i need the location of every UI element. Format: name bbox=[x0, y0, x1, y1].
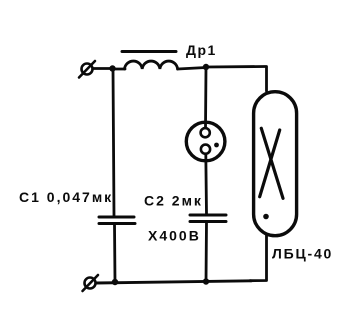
bottom wire bbox=[96, 281, 251, 283]
lamp tube LBC-40 bbox=[254, 92, 297, 236]
starter lamp (glow starter) bbox=[186, 122, 225, 161]
capacitor C2 bbox=[190, 215, 226, 222]
capacitor C1 bbox=[99, 217, 135, 224]
wire lamp bottom to corner bbox=[250, 236, 267, 281]
terminal bottom-left bbox=[83, 275, 99, 291]
wire starter branch upper bbox=[204, 67, 207, 128]
lamp X electrode mark bbox=[260, 128, 283, 198]
node A bbox=[109, 65, 115, 71]
lamp dot bbox=[263, 214, 269, 220]
svg-text:ЛБЦ-40: ЛБЦ-40 bbox=[272, 246, 333, 262]
svg-text:Др1: Др1 bbox=[186, 42, 217, 58]
node B bbox=[203, 64, 209, 70]
wire starter to C2 bbox=[204, 154, 207, 214]
wire node A to inductor bbox=[113, 68, 126, 71]
terminal top-left bbox=[79, 61, 95, 78]
svg-text:Х400В: Х400В bbox=[148, 228, 201, 244]
wire terminal to node A bbox=[93, 67, 112, 70]
wire vertical C1 branch upper bbox=[113, 69, 114, 217]
svg-text:C2 2мк: C2 2мк bbox=[144, 193, 203, 209]
node C bbox=[112, 279, 118, 285]
inductor Dr1 coil bbox=[125, 61, 178, 69]
wire C1 to bottom wire bbox=[113, 224, 116, 282]
svg-text:C1 0,047мк: C1 0,047мк bbox=[19, 189, 113, 205]
node D bbox=[203, 278, 209, 284]
wire C2 to bottom wire bbox=[205, 222, 208, 282]
wire node B to top-right corner and down to lamp bbox=[206, 67, 267, 92]
wire inductor to node B bbox=[178, 68, 206, 70]
inductor Dr1 core bar bbox=[122, 50, 176, 53]
